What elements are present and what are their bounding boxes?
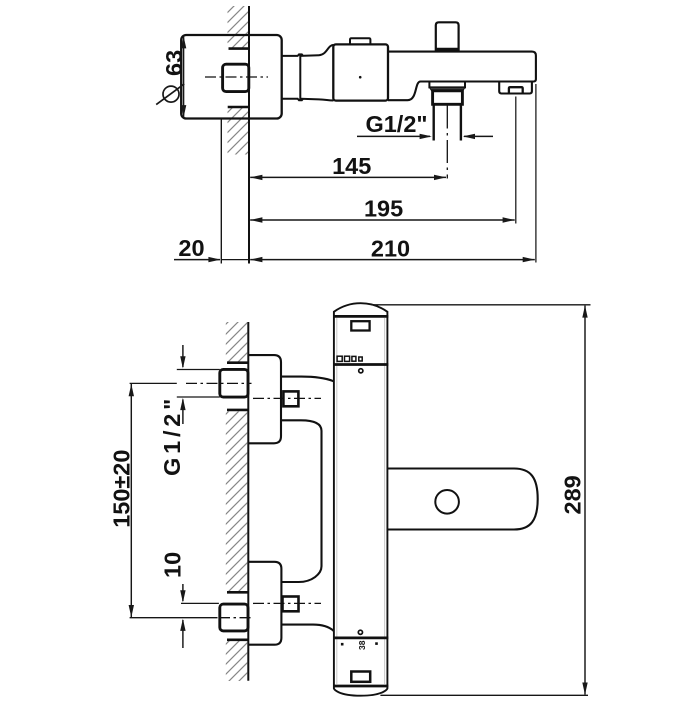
column bottom line [333, 685, 388, 688]
column cap line [333, 315, 388, 318]
neck step [298, 54, 303, 100]
wall hatch patch lower [226, 641, 247, 682]
button squares [337, 356, 342, 361]
shower outlet pipe (up) [436, 22, 459, 51]
shower pipe base bold line [435, 48, 459, 51]
screw dot upper [359, 369, 363, 373]
diverter flange sides [429, 82, 465, 88]
temperature handle [387, 469, 537, 530]
centerline [205, 76, 268, 78]
dimension G1/2 (top view) [357, 111, 493, 139]
wing cover bottom edge [281, 625, 333, 631]
bottom window [351, 672, 370, 682]
ext line 195 (spout end piece center) [515, 97, 517, 224]
inlet square bottom [283, 597, 299, 612]
spout end piece [499, 82, 532, 94]
centerline wall pipe top [186, 382, 252, 384]
svg-text:38: 38 [357, 640, 367, 650]
eccentric union bottom [248, 562, 281, 645]
dimension D63 (flange) [156, 36, 187, 117]
wall hole edges bottom union [227, 591, 249, 594]
dimension 145 [250, 153, 446, 180]
handle hole [435, 490, 459, 514]
wall hatch lower patch [228, 108, 249, 155]
ext line 210 (spout tip) [535, 84, 537, 263]
wing cover top edge [281, 377, 334, 382]
svg-text:G1/2": G1/2" [365, 111, 427, 137]
wall face line [248, 6, 250, 264]
svg-text:63: 63 [161, 50, 187, 76]
dimension 210 [250, 235, 535, 262]
column inner shading lines [337, 318, 385, 684]
wall hole bottom edge [228, 106, 250, 109]
hand shower pipe [434, 104, 461, 140]
dimension 20 (wall) [174, 235, 249, 262]
dimension 10 [160, 552, 219, 648]
wall union nut [223, 64, 249, 91]
wall back line [220, 119, 222, 264]
centerline inlet bottom [253, 602, 321, 604]
svg-text:289: 289 [559, 475, 585, 514]
dimension 150+-20 [108, 383, 217, 617]
wing cover S-profile [281, 420, 321, 582]
column section line lower [333, 637, 388, 640]
svg-text:G1/2": G1/2" [159, 395, 185, 476]
svg-text:150±20: 150±20 [108, 450, 134, 528]
neck taper to body [301, 45, 334, 101]
spout arm outline [388, 52, 536, 101]
inlet square top [283, 391, 298, 406]
svg-text:210: 210 [371, 235, 410, 261]
diverter collar [433, 91, 463, 105]
dimension 289 [371, 305, 590, 696]
wall face line (front) [247, 322, 249, 681]
neck section outline [282, 56, 298, 99]
screw dot lower [358, 630, 362, 634]
wall nut bottom [220, 604, 248, 631]
wall hatch upper patch [228, 6, 249, 48]
safety tick right [375, 642, 378, 645]
svg-text:145: 145 [332, 153, 371, 179]
svg-text:195: 195 [364, 196, 403, 222]
body top tab [350, 38, 370, 44]
escutcheon flange [181, 35, 282, 119]
body center dot [359, 76, 362, 79]
dimension G1/2 (front) [159, 345, 220, 476]
column bottom dome [334, 686, 388, 696]
display window [351, 321, 369, 330]
thermostat column body [334, 303, 388, 686]
wall hatch patch middle [226, 412, 247, 592]
safety tick left [341, 643, 344, 646]
centerline wall pipe bottom [219, 617, 252, 619]
wall nut top [220, 369, 248, 397]
svg-text:20: 20 [178, 235, 204, 261]
diverter chamfer band [429, 87, 465, 90]
column section line upper [333, 363, 388, 366]
wall hole edges top union [227, 361, 249, 364]
wall hole top edge [229, 47, 250, 50]
spout end inner tab [509, 87, 523, 93]
wall hatch patch upper [226, 322, 247, 362]
centerline inlet top [253, 397, 321, 399]
cartridge body [333, 44, 388, 100]
dimension 195 [250, 196, 515, 223]
eccentric union top [248, 355, 281, 443]
pipe centerline extension [446, 106, 448, 179]
svg-text:10: 10 [160, 552, 186, 578]
